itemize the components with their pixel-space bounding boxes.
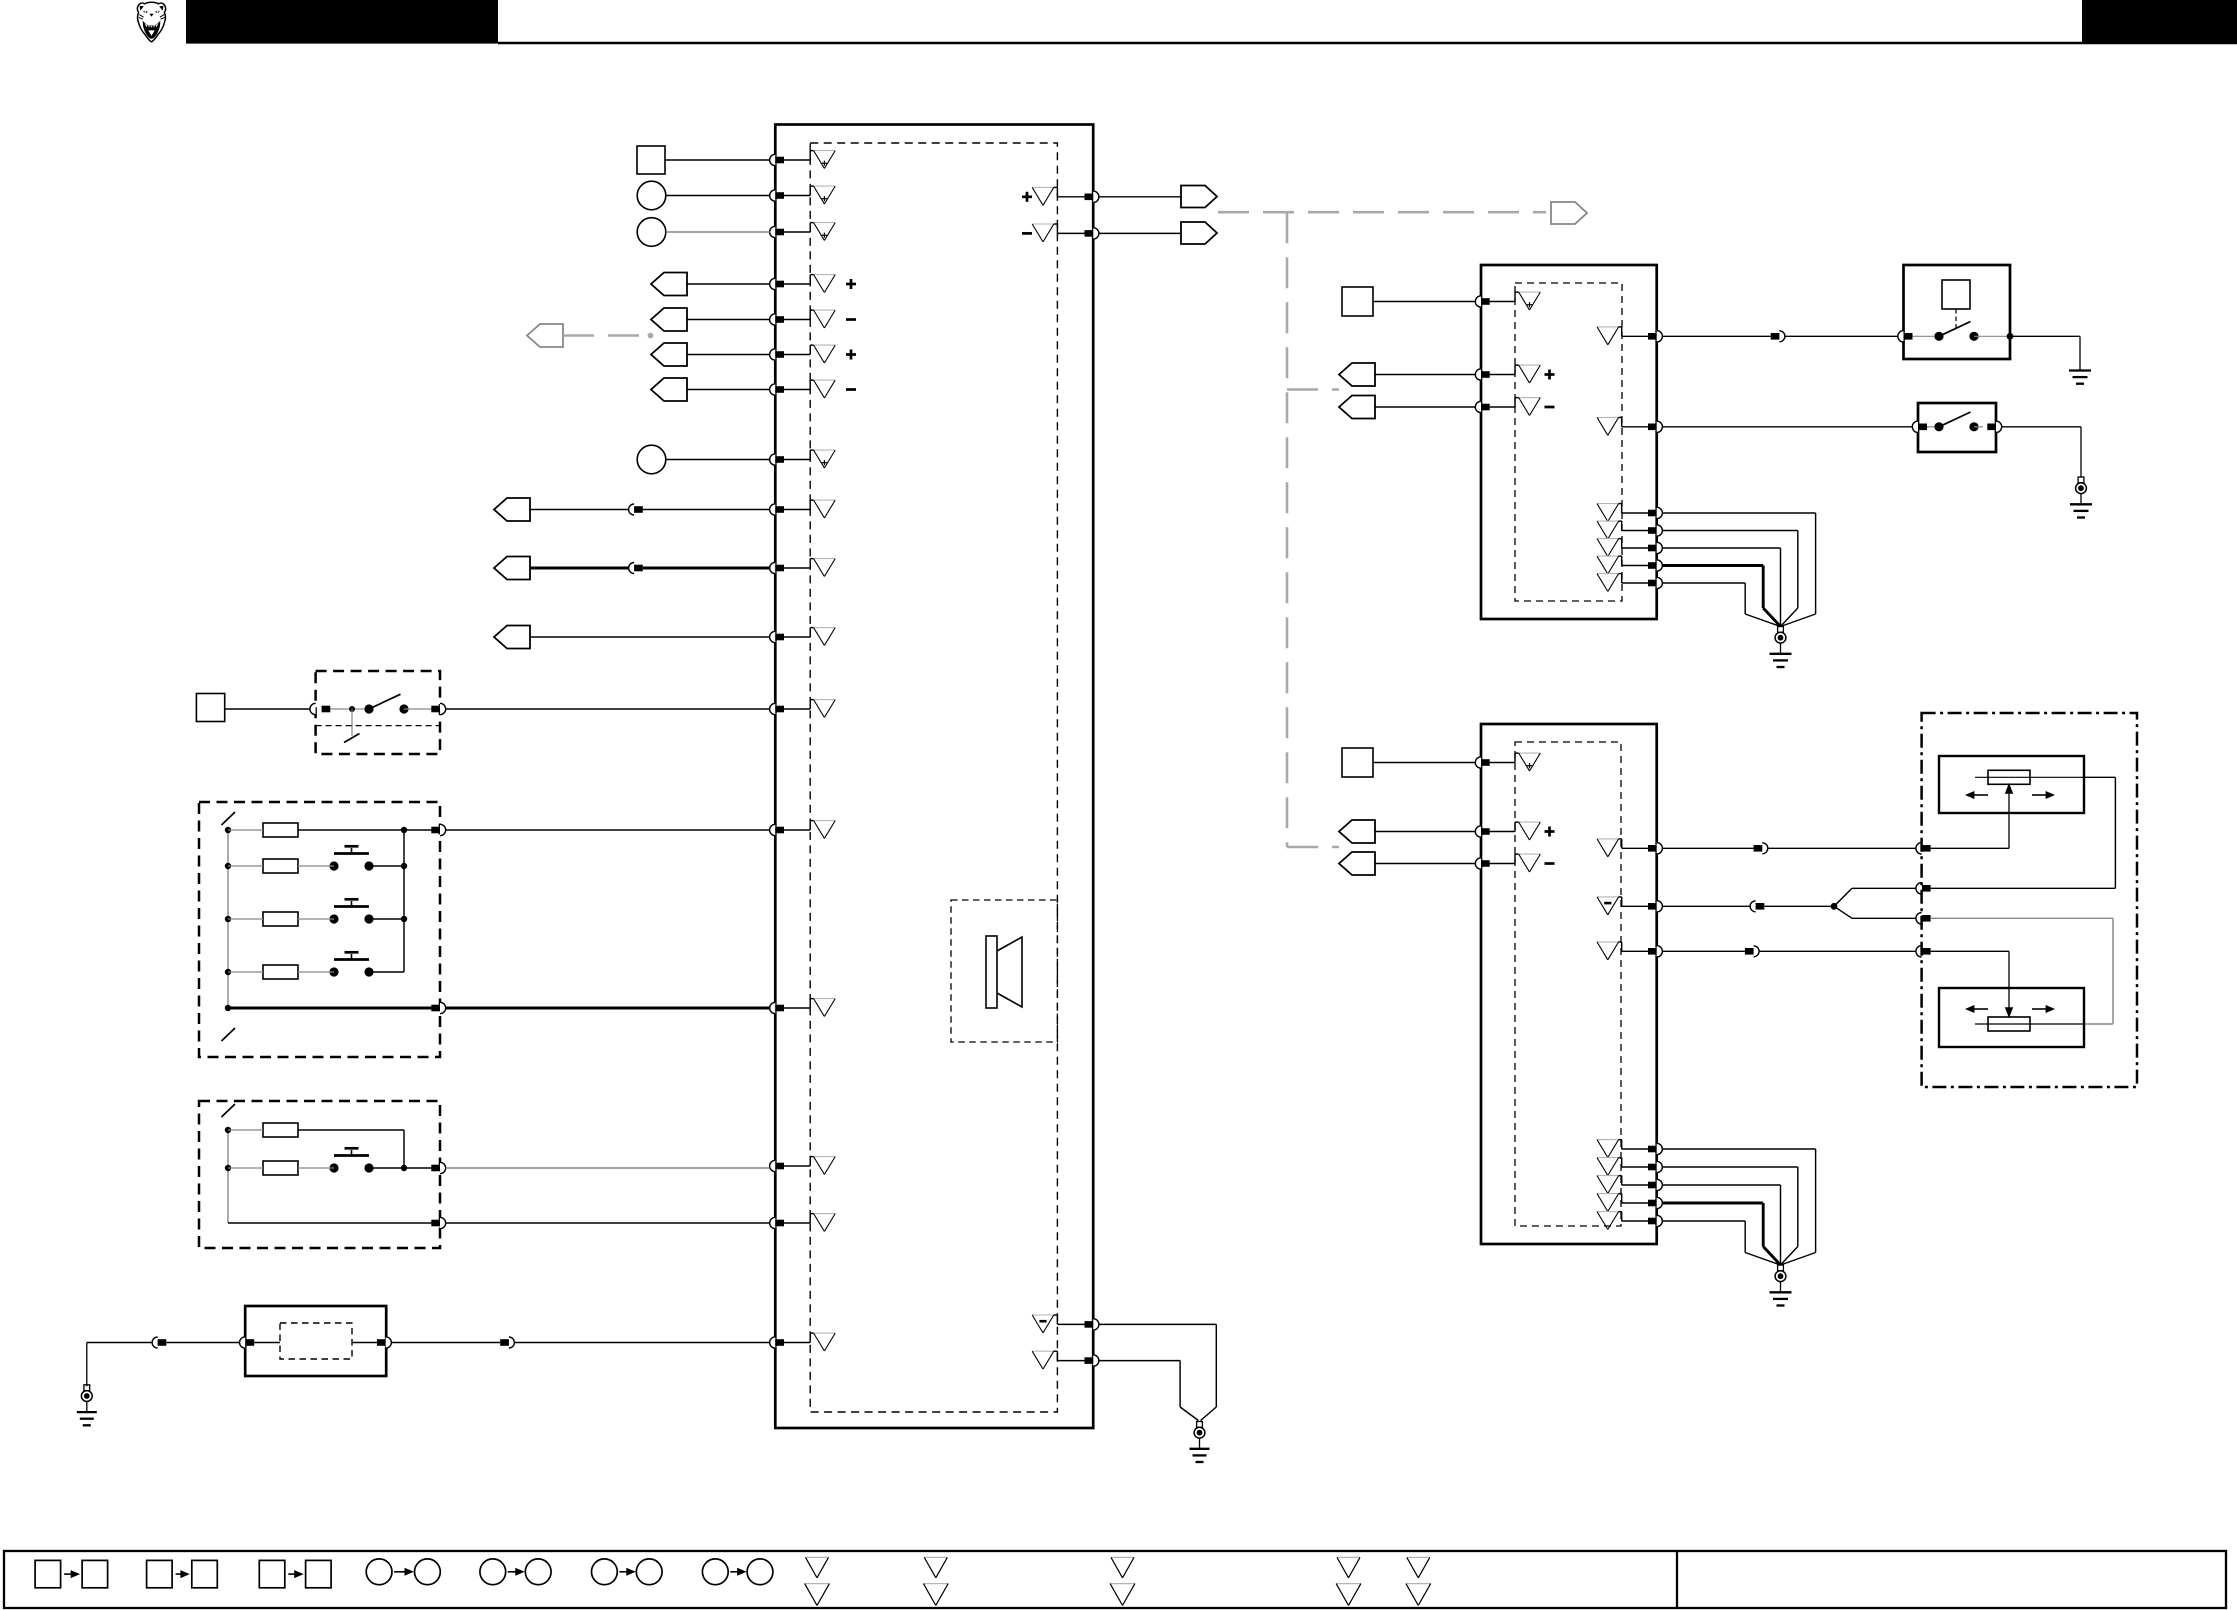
- module U1 audio output - pin: [1085, 228, 1099, 239]
- fork upper wire: [1834, 888, 1916, 906]
- wire A1 input-: [1375, 406, 1475, 408]
- actuator box pin4: [1916, 946, 1931, 957]
- A2 input+ pin: [1475, 826, 1489, 837]
- legend square pair 3: [259, 1560, 331, 1587]
- legend triangle pair 5: [1406, 1557, 1431, 1605]
- potentiometer P2 box: [1939, 988, 2084, 1047]
- actuator dash-dot box: [1922, 713, 2137, 1087]
- wire row9 left segment: [530, 509, 629, 511]
- K1 contacts: [1913, 322, 2014, 341]
- legend circle pair 4: [702, 1559, 773, 1585]
- wire switchpack2 return to U1: [446, 1222, 770, 1224]
- connector arrow row6: [651, 343, 687, 366]
- telephone circle input: [637, 445, 666, 474]
- wire A2 out2 segment: [1662, 905, 1750, 907]
- switchpack return node: [225, 1005, 231, 1011]
- shield dashed trunk (grey): [1218, 212, 1546, 847]
- A1 input+ pin: [1475, 369, 1489, 380]
- S2 contacts: [1927, 412, 1983, 431]
- switchpack return exit pin: [431, 1002, 445, 1013]
- shield link arrow (grey): [527, 324, 563, 347]
- wire A2 input+: [1375, 831, 1475, 833]
- connector arrow row5: [651, 308, 687, 331]
- A2 ground pins: [1648, 1143, 1662, 1226]
- legend circle pair 2: [480, 1559, 551, 1585]
- legend circle pair 1: [366, 1559, 440, 1585]
- ground G4 (plain): [2069, 371, 2091, 384]
- switchpack R2 row wires: [228, 865, 404, 867]
- fuse F1 square symbol: [637, 146, 665, 174]
- amplifier A1 inner dashed boundary: [1515, 283, 1622, 601]
- A2 input- arrow: [1339, 852, 1375, 875]
- switchpack bottom tick: [222, 1028, 236, 1041]
- wire ignition square to S1: [225, 708, 310, 710]
- A1 output1 stub: [1619, 327, 1648, 336]
- A1 power stub: [1490, 292, 1519, 301]
- A1 ground pins: [1648, 507, 1662, 588]
- wire U1 gnd1 funnel: [1099, 1324, 1216, 1420]
- connector arrow row4: [651, 273, 687, 296]
- switchpack2 return exit pin: [431, 1217, 445, 1228]
- A2 output2 pin: [1648, 901, 1662, 912]
- A2 power triangle: [1519, 753, 1541, 771]
- resistor R5: [263, 1123, 298, 1137]
- A1 input+ triangle: [1519, 365, 1555, 383]
- switchpack2 row1 dot: [225, 1127, 231, 1133]
- resistor R2: [263, 859, 298, 873]
- P2 element lead: [1975, 1023, 2084, 1025]
- P2 left arrow: [1966, 1006, 1988, 1013]
- switchpack R4 row wires: [228, 971, 404, 973]
- A2 input+ stub: [1490, 822, 1519, 831]
- A1 output2 pin: [1648, 421, 1662, 432]
- wire connector arrow row6 to U1: [687, 354, 770, 356]
- shield link dashed wire (grey): [563, 333, 653, 339]
- inline connector A2 out3: [1745, 946, 1759, 957]
- wire switchpack row1 to U1: [446, 829, 770, 831]
- module U1 inner dashed boundary: [810, 143, 1057, 1412]
- header right black box: [2082, 0, 2237, 44]
- A1 input+ arrow: [1339, 363, 1375, 386]
- wire row10 right segment (bold): [643, 567, 770, 570]
- wire switchpack2 row2 to U1 (grey): [446, 1167, 770, 1169]
- A1 power pin: [1475, 296, 1489, 307]
- A1 power triangle: [1519, 292, 1541, 310]
- wire fuse F1 to U1: [665, 159, 770, 161]
- relay switch box K1: [1904, 265, 2011, 359]
- switchpack R3 row wires: [228, 918, 404, 920]
- switch button R2 row: [329, 846, 373, 870]
- switch button R6 row: [329, 1148, 373, 1172]
- resistor R1: [263, 823, 298, 837]
- P2 right arrow: [2032, 1006, 2054, 1013]
- module U1 output - triangle: [1022, 224, 1054, 242]
- switch S1 internals: [330, 694, 431, 742]
- connector arrow row10: [494, 557, 530, 580]
- inline connector bottom-mid: [500, 1337, 514, 1348]
- wire fusebox to inline connector: [391, 1342, 500, 1344]
- A2 power stub: [1490, 753, 1519, 762]
- wire G1 to inline connector: [87, 1342, 152, 1344]
- A2 input- stub: [1490, 854, 1519, 863]
- wire row11: [530, 636, 770, 638]
- wire A1 out1 segment: [1662, 335, 1770, 337]
- P1 element lead: [1975, 776, 2084, 778]
- amplifier A1 outline: [1481, 265, 1657, 619]
- A1 output1 triangle: [1597, 327, 1619, 345]
- inline connector row10: [629, 563, 643, 574]
- A2 input- pin: [1475, 858, 1489, 869]
- switch S1 exit pin: [431, 703, 445, 714]
- wire connector arrow row4 to U1: [687, 283, 770, 285]
- switchpack node dot y919: [225, 916, 231, 922]
- wire A1 power: [1373, 301, 1475, 303]
- wire A2 out1 segment: [1662, 847, 1753, 849]
- switchpack2 return wire: [228, 1222, 431, 1224]
- actuator box pin1: [1916, 843, 1931, 854]
- switchpack dashed box: [199, 802, 440, 1057]
- legend triangle pair 4: [1336, 1557, 1361, 1605]
- amplifier A2 outline: [1481, 724, 1657, 1244]
- module U1 audio unit outline: [775, 125, 1093, 1429]
- ignition square symbol: [196, 694, 224, 722]
- fork lower wire: [1834, 906, 1916, 918]
- switchpack return wire (bold): [228, 1007, 431, 1010]
- switchpack2 row2 wires: [228, 1165, 431, 1171]
- K1 coil square: [1942, 280, 1970, 309]
- A2 output2 stub: [1619, 897, 1648, 906]
- wire circle1 to U1: [666, 195, 770, 197]
- A2 input- triangle: [1519, 854, 1555, 872]
- switchpack node dot y972: [225, 969, 231, 975]
- switchpack row1 node dot: [225, 827, 231, 833]
- A2 ground stubs: [1619, 1140, 1648, 1221]
- module U1 ground stub wires: [1054, 1315, 1085, 1361]
- switchpack node dot y866: [225, 863, 231, 869]
- wire U1 out- to arrow: [1099, 232, 1181, 234]
- wire A2 out1 to box: [1768, 847, 1916, 849]
- connector arrow row9: [494, 498, 530, 521]
- fuse element dashed box: [280, 1323, 352, 1359]
- off-page shield arrow (grey): [1551, 202, 1587, 224]
- wire row9 right segment: [643, 509, 770, 511]
- connector arrow row7: [651, 378, 687, 401]
- A2 output2 triangle: [1597, 897, 1619, 915]
- A2 output3 triangle: [1597, 942, 1619, 960]
- legend bar outline: [4, 1551, 2226, 1608]
- potentiometer P1 box: [1939, 756, 2084, 813]
- legend square pair 1: [35, 1560, 108, 1587]
- A1 output2 stub: [1619, 417, 1648, 426]
- legend divider: [1676, 1551, 1678, 1608]
- wire to fusebox: [166, 1342, 245, 1344]
- A1 ground funnel wires: [1662, 513, 1815, 627]
- switchpack row1 wires: [228, 827, 431, 833]
- speaker SP1 icon: [986, 936, 1022, 1008]
- RF input circle 2: [637, 218, 666, 247]
- A2 output1 stub: [1619, 839, 1648, 848]
- ground G3: [1770, 627, 1792, 668]
- S2 exit pin: [1987, 421, 2001, 432]
- A2 ground funnel wires: [1662, 1149, 1815, 1265]
- wire A2 out3 segment: [1662, 950, 1745, 952]
- K1 coil dashed link: [1955, 309, 1957, 329]
- legend triangle pair 3: [1110, 1557, 1135, 1605]
- wire connector arrow row5 to U1: [687, 319, 770, 321]
- A1 input- triangle: [1519, 398, 1555, 416]
- A1 input+ stub: [1490, 365, 1519, 374]
- legend square pair 2: [147, 1560, 218, 1587]
- A2 output3 stub: [1619, 942, 1648, 951]
- off-page arrow out-: [1181, 222, 1217, 244]
- wire pin4 to wiper2: [1931, 950, 2009, 952]
- wire pin1 to wiper1: [1931, 847, 2009, 849]
- module U1 output + triangle: [1022, 187, 1054, 205]
- A2 input+ triangle: [1519, 822, 1555, 840]
- resistor R4: [263, 965, 298, 979]
- legend triangle pair 1: [805, 1557, 830, 1605]
- fork junction dot: [1831, 903, 1838, 910]
- switch S1 dashed box: [316, 671, 440, 754]
- wire A2 out3 to box: [1759, 950, 1916, 952]
- A1 ground triangles: [1597, 504, 1619, 592]
- switchpack row1 exit pin: [431, 824, 445, 835]
- A2 output3 pin: [1648, 946, 1662, 957]
- inline connector A1 out1: [1771, 331, 1785, 342]
- ground G5: [2070, 477, 2092, 518]
- inline connector row9: [629, 504, 643, 515]
- module U1 audio output + pin: [1085, 191, 1099, 202]
- amplifier A2 inner dashed boundary: [1515, 742, 1621, 1226]
- wire circle2 to U1 (grey): [666, 231, 770, 233]
- A1 input- arrow: [1339, 396, 1375, 419]
- actuator box pin2: [1916, 883, 1931, 894]
- page header black title bar: [186, 0, 498, 44]
- switchpack2 tick: [222, 1104, 236, 1117]
- S2 entry pin: [1912, 421, 1927, 432]
- wire A2 input-: [1375, 863, 1475, 865]
- ground G1 wire drop: [86, 1343, 88, 1387]
- RF input circle 1: [637, 181, 666, 210]
- wire pin2 to pot1: [1931, 777, 2116, 888]
- wire S2 to ground: [2002, 427, 2081, 477]
- resistor R6: [263, 1161, 298, 1175]
- header rule line: [498, 42, 2237, 44]
- module U1 input wire identification triangles: [814, 151, 856, 1351]
- inline connector A2 out2: [1750, 901, 1764, 912]
- A2 output1 pin: [1648, 843, 1662, 854]
- A2 output1 triangle: [1597, 839, 1619, 857]
- wire to U1 bottom pin: [514, 1342, 769, 1344]
- Jaguar growler logo: [137, 2, 165, 42]
- wire connector arrow row7 to U1: [687, 389, 770, 391]
- A1 ground stubs: [1619, 504, 1648, 583]
- ground G6: [1770, 1265, 1792, 1306]
- P1 right arrow: [2032, 792, 2054, 799]
- switch box S2: [1918, 403, 1996, 452]
- P1 left arrow: [1966, 792, 1988, 799]
- switchpack2 row2 dot: [225, 1165, 231, 1171]
- A1 output2 triangle: [1597, 417, 1619, 435]
- inline connector A2 out1: [1754, 843, 1768, 854]
- wire K1 to ground: [2010, 336, 2080, 370]
- fusebox right pin: [377, 1337, 391, 1348]
- K1 entry pin: [1898, 331, 1913, 342]
- module U1 ground output pin 2: [1085, 1355, 1099, 1366]
- A1 input- stub: [1490, 398, 1519, 407]
- switchpack common bus (grey): [227, 830, 229, 1008]
- A2 ground triangles: [1597, 1140, 1619, 1230]
- wire A1 out2 to switch: [1662, 426, 1912, 428]
- switchpack output bus: [401, 830, 407, 972]
- wire pin3 to pot2 (grey): [1931, 918, 2113, 1024]
- wire A1 out1 to switch: [1785, 335, 1898, 337]
- P1 wiper: [2005, 784, 2012, 848]
- fusebox internal wires: [254, 1342, 377, 1344]
- inline connector bottom-left: [152, 1337, 166, 1348]
- legend triangle pair 2: [923, 1557, 948, 1605]
- wire A1 input+: [1375, 374, 1475, 376]
- module U1 pin stub wires: [784, 151, 814, 1343]
- module U1 ground output pin 1: [1085, 1319, 1099, 1330]
- switchpack2 row1 wire: [228, 1130, 404, 1168]
- ground G1: [77, 1385, 97, 1426]
- fusebox outline: [245, 1306, 386, 1376]
- A1 power square symbol: [1342, 287, 1373, 316]
- module U1 left connector pins: [770, 154, 784, 1348]
- A2 power square symbol: [1342, 748, 1373, 777]
- module U1 ground triangle 1: [1032, 1315, 1054, 1333]
- switchpack2 bus (grey): [227, 1130, 229, 1223]
- wire tel circle to U1: [666, 459, 770, 461]
- switchpack top tick: [222, 812, 236, 825]
- A2 power pin: [1475, 757, 1489, 768]
- wire A2 out2 to fork: [1764, 905, 1831, 907]
- P1 resistor element: [1988, 770, 2030, 784]
- A2 input+ arrow: [1339, 820, 1375, 843]
- speaker sub-box dashed: [951, 900, 1057, 1042]
- A1 output1 pin: [1648, 331, 1662, 342]
- resistor R3: [263, 912, 298, 926]
- module U1 output stub wires: [1054, 187, 1085, 233]
- A1 input- pin: [1475, 401, 1489, 412]
- switchpack2 dashed box: [199, 1101, 440, 1248]
- switch S1 entry pin: [310, 703, 330, 714]
- P2 resistor element: [1988, 1017, 2030, 1031]
- wire row10 left segment (bold): [530, 567, 629, 570]
- switchpack2 row2 exit pin: [431, 1162, 445, 1173]
- wire S1 to U1: [446, 708, 770, 710]
- wire A2 power: [1373, 762, 1475, 764]
- switch S1 inner dashed divider: [316, 725, 440, 727]
- legend circle pair 3: [592, 1559, 663, 1585]
- connector arrow row11: [494, 626, 530, 649]
- module U1 ground triangle 2: [1032, 1351, 1054, 1369]
- wire switchpack return to U1 (bold): [446, 1007, 770, 1010]
- fusebox left pin: [240, 1337, 255, 1348]
- actuator box pin3: [1916, 913, 1931, 924]
- off-page arrow out+: [1181, 186, 1217, 208]
- switch button R3 row: [329, 899, 373, 923]
- P2 wiper: [2005, 951, 2012, 1017]
- wire U1 out+ to arrow: [1099, 196, 1181, 198]
- wire U1 gnd2 funnel: [1099, 1361, 1199, 1421]
- switch button R4 row: [329, 952, 373, 976]
- ground G2: [1190, 1422, 1210, 1463]
